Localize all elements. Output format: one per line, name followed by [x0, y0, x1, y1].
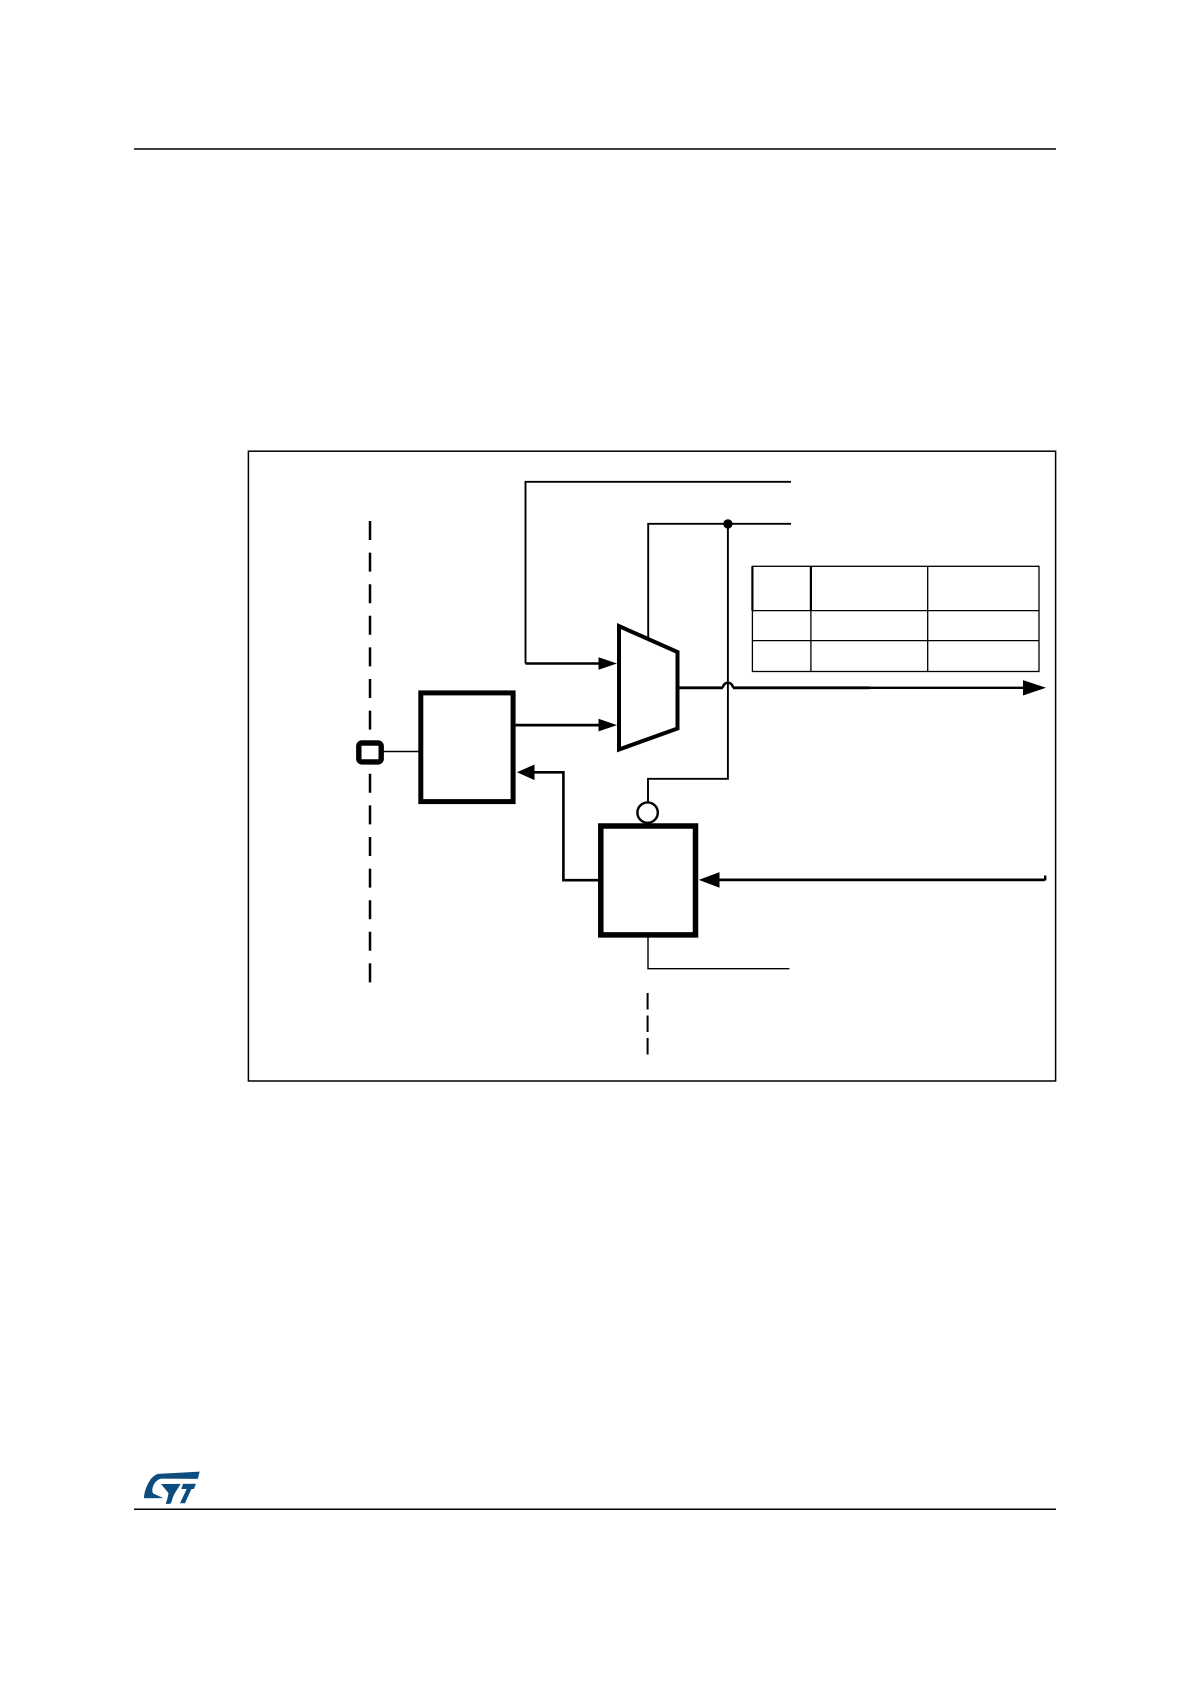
wire: long input line from right [719, 879, 1045, 882]
table row line 1 [752, 610, 1039, 612]
end tick of input line [1044, 876, 1046, 881]
arrowhead into edge detector [699, 872, 720, 888]
inverter bubble [637, 802, 657, 822]
arrowhead into mux input 1 [599, 657, 618, 670]
block: input driver [421, 693, 513, 802]
wire: pin to input block [383, 751, 419, 753]
dashed peripheral boundary line [369, 521, 372, 983]
wire: select line 1 (top) [526, 482, 792, 664]
table column line 1 [810, 566, 812, 671]
arrowhead into input block [517, 765, 535, 781]
table header cell emphasis left [751, 566, 753, 610]
wire: select line 2 (to mux select) [648, 524, 791, 639]
wire: mux output segment with line hop [678, 686, 723, 689]
wire: feedback from edge detector to input block [533, 772, 599, 880]
arrowhead into mux input 2 [599, 719, 618, 732]
header rule [134, 148, 1056, 150]
wire: edge detector bottom output [648, 938, 789, 969]
table column line 2 [927, 566, 929, 671]
figure frame [248, 451, 1055, 1081]
table header cell emphasis divider [810, 566, 812, 610]
wire: from junction down to inverter [648, 524, 728, 802]
line hop arc over vertical wire [723, 683, 733, 688]
junction dot [723, 519, 732, 528]
wire: input block to mux input 2 [516, 724, 600, 727]
ST logo [144, 1472, 200, 1504]
I/O pin square [359, 743, 381, 762]
wire: select line 1 approach segment [526, 662, 601, 665]
multiplexer [619, 626, 678, 749]
table: configuration table frame [752, 566, 1039, 671]
block: edge detector [601, 826, 696, 935]
table row line 2 [752, 640, 1039, 642]
arrowhead: output to right [1023, 680, 1046, 695]
dashed stub below edge detector [647, 993, 649, 1055]
footer rule [134, 1508, 1056, 1510]
wire: output run [733, 686, 870, 689]
